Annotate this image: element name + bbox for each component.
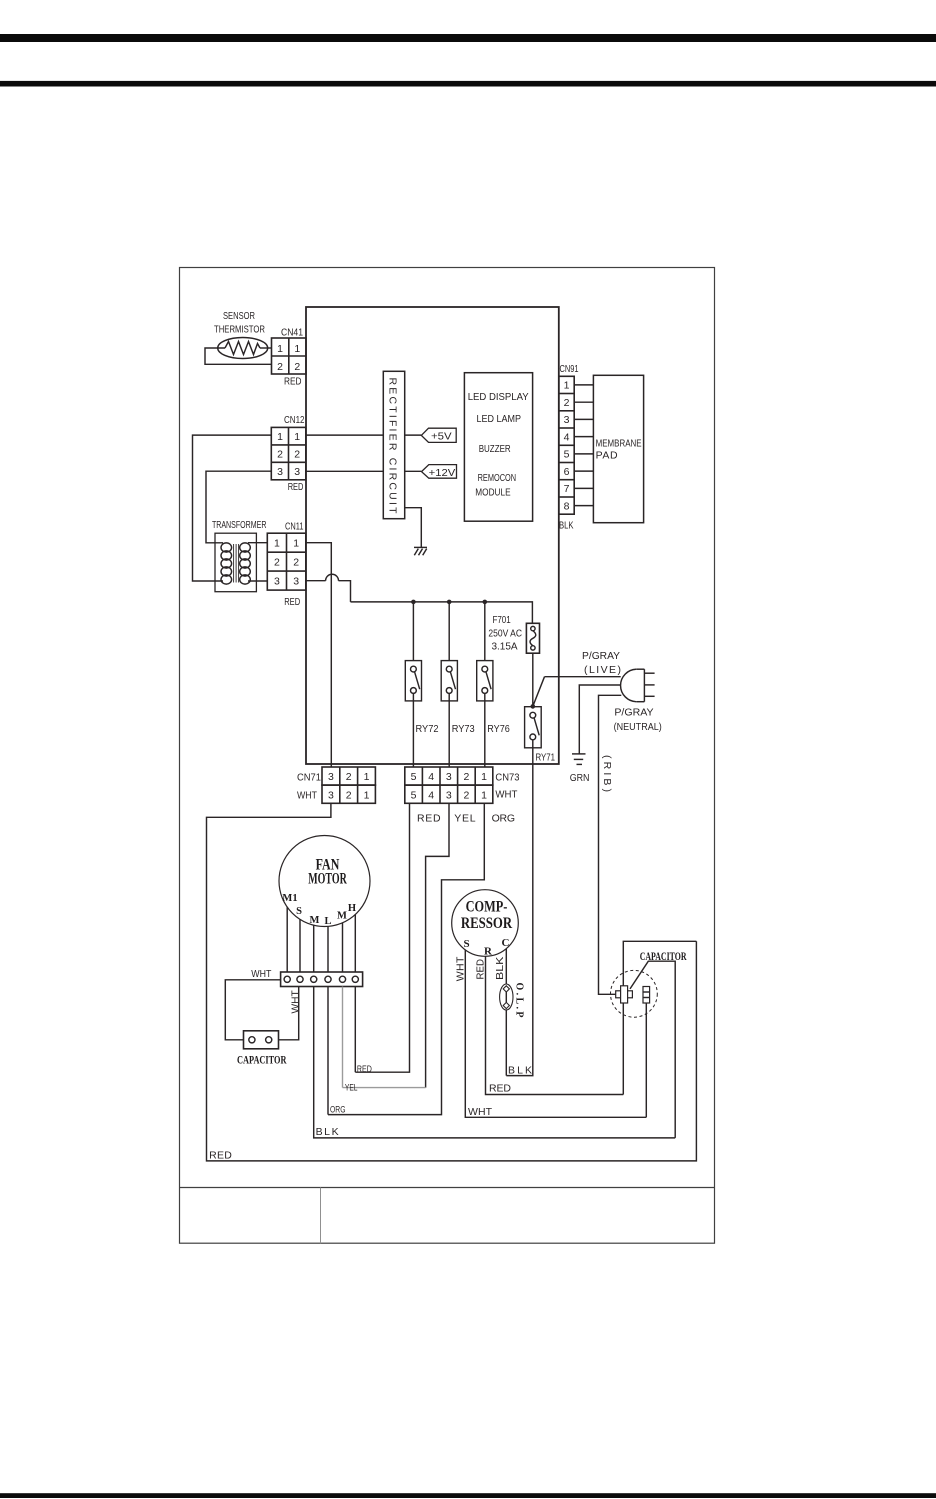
compressor motor xyxy=(452,890,519,957)
svg-text:1: 1 xyxy=(364,789,370,801)
svg-text:CN71: CN71 xyxy=(297,772,321,784)
svg-text:S: S xyxy=(463,938,469,950)
svg-text:COMP-: COMP- xyxy=(466,899,508,916)
thermistor resistive zigzag xyxy=(225,342,260,355)
wire CN73 pin3 yellow to fan terminal 5 xyxy=(426,803,449,1087)
connector CN71 xyxy=(322,767,375,803)
svg-text:(LIVE): (LIVE) xyxy=(584,664,621,676)
connector CN41 xyxy=(272,338,307,374)
relay RY76 xyxy=(477,661,493,701)
junction dot RY73 tap xyxy=(447,600,452,605)
svg-text:REMOCON: REMOCON xyxy=(478,472,516,484)
top rule bar 2 xyxy=(0,81,936,87)
svg-text:TRANSFORMER: TRANSFORMER xyxy=(212,519,267,531)
svg-text:2: 2 xyxy=(277,361,283,373)
svg-text:3: 3 xyxy=(564,414,570,426)
wire neutral lead from plug to capacitor xyxy=(599,695,622,994)
AC live bus wire xyxy=(351,602,533,623)
svg-text:WHT: WHT xyxy=(251,968,272,980)
svg-text:MOTOR: MOTOR xyxy=(308,871,347,888)
svg-text:1: 1 xyxy=(564,380,570,392)
svg-text:1: 1 xyxy=(294,431,300,443)
svg-text:RED: RED xyxy=(209,1149,232,1161)
svg-text:RY72: RY72 xyxy=(416,723,439,735)
junction dot RY72 tap xyxy=(411,600,416,605)
svg-text:2: 2 xyxy=(277,449,283,461)
svg-text:CN11: CN11 xyxy=(285,521,304,533)
wire RY73 tap to relay xyxy=(448,602,450,661)
svg-text:7: 7 xyxy=(564,483,570,495)
wires CN91 pins 1-8 to membrane pad xyxy=(574,385,593,506)
transformer T1 xyxy=(215,533,256,592)
wire RY71 node to live lead diagonal xyxy=(533,677,545,707)
svg-text:1: 1 xyxy=(277,431,283,443)
wire live lead to plug xyxy=(545,676,621,678)
svg-text:2: 2 xyxy=(293,557,299,569)
fuse F701 value label xyxy=(488,614,522,653)
junction dot RY71 top xyxy=(531,704,536,709)
+5V net flag xyxy=(421,428,456,442)
rectifier circuit block xyxy=(383,371,404,518)
svg-text:RED: RED xyxy=(357,1064,372,1074)
svg-text:BUZZER: BUZZER xyxy=(479,443,511,455)
svg-text:1: 1 xyxy=(364,771,370,783)
svg-text:4: 4 xyxy=(428,771,434,783)
wire fan terminal 5 down xyxy=(342,987,344,1088)
svg-text:3: 3 xyxy=(328,771,334,783)
svg-text:H: H xyxy=(348,903,356,914)
svg-text:C: C xyxy=(502,937,510,949)
relay RY71 xyxy=(525,707,542,748)
svg-text:3: 3 xyxy=(293,576,299,588)
wire CN73 pin5 red to fan terminal 6 xyxy=(355,803,409,1072)
relay RY72 xyxy=(405,661,421,701)
svg-text:5: 5 xyxy=(564,449,570,461)
svg-text:RESSOR: RESSOR xyxy=(461,915,513,932)
wire compressor S white to right capacitor xyxy=(465,950,646,1118)
svg-text:3: 3 xyxy=(294,466,300,478)
wire rectifier to +12V flag xyxy=(405,470,422,472)
wire ground lead from plug xyxy=(579,685,620,754)
svg-text:M: M xyxy=(310,915,320,926)
svg-text:4: 4 xyxy=(428,789,434,801)
svg-text:ORG: ORG xyxy=(330,1105,346,1115)
overload protector O.L.P xyxy=(500,984,513,1010)
svg-text:3: 3 xyxy=(446,789,452,801)
+12V net flag xyxy=(422,465,457,479)
svg-text:(NEUTRAL): (NEUTRAL) xyxy=(614,721,662,733)
connector CN91 xyxy=(559,376,574,514)
membrane pad block xyxy=(593,375,643,522)
power plug label P/GRAY (NEUTRAL) xyxy=(614,707,662,733)
svg-text:O.L.P: O.L.P xyxy=(514,983,525,1018)
fan motor lead wires to terminal strip xyxy=(287,907,355,972)
svg-text:CN12: CN12 xyxy=(284,414,305,426)
wire fuse to RY71 node xyxy=(532,653,534,706)
wire capacitor to fan terminal 2 xyxy=(279,987,299,1040)
svg-text:1: 1 xyxy=(277,343,283,355)
wire CN12 pin3 to transformer primary top xyxy=(206,471,271,543)
svg-text:THERMISTOR: THERMISTOR xyxy=(214,324,265,336)
svg-text:RED: RED xyxy=(489,1083,511,1095)
svg-text:2: 2 xyxy=(294,361,300,373)
wire fan terminal 3 black to right capacitor branch xyxy=(314,987,676,1138)
svg-text:RY71: RY71 xyxy=(536,751,556,763)
svg-text:CAPACITOR: CAPACITOR xyxy=(237,1052,287,1066)
capacitor cross terminal xyxy=(616,986,633,1003)
svg-text:GRN: GRN xyxy=(570,772,590,784)
signal ground symbol xyxy=(414,547,427,555)
svg-text:3: 3 xyxy=(446,771,452,783)
wire CN12 pin1 to rectifier xyxy=(306,434,384,436)
svg-text:8: 8 xyxy=(564,500,570,512)
wire CN12 pin1 to transformer primary bottom xyxy=(193,435,272,581)
svg-text:2: 2 xyxy=(463,789,469,801)
svg-text:1: 1 xyxy=(294,343,300,355)
power plug xyxy=(621,669,655,702)
svg-text:2: 2 xyxy=(274,557,280,569)
compressor capacitor dashed outline xyxy=(611,970,658,1017)
svg-text:BLK: BLK xyxy=(559,519,574,531)
relay RY73 xyxy=(441,661,457,701)
footer strip divider line xyxy=(180,1187,715,1189)
svg-text:1: 1 xyxy=(481,789,487,801)
svg-text:CN73: CN73 xyxy=(495,771,519,783)
wire RY73 to CN73 pin3 xyxy=(448,693,450,767)
wire fan terminal 1 to capacitor xyxy=(225,980,280,1040)
wire CN73 pin1 orange to fan terminal 4 xyxy=(328,803,484,1114)
svg-text:RED: RED xyxy=(474,959,486,980)
wire RY76 to CN73 pin1 xyxy=(484,693,486,767)
fan capacitor xyxy=(244,1031,279,1049)
wire capacitor cross to black branch xyxy=(630,961,675,1138)
LED display / buzzer / remocon module block xyxy=(464,373,532,522)
top rule bar 1 xyxy=(0,34,936,42)
svg-text:YEL: YEL xyxy=(345,1082,358,1092)
svg-text:6: 6 xyxy=(564,466,570,478)
svg-text:BLK: BLK xyxy=(316,1126,339,1138)
svg-text:P/GRAY: P/GRAY xyxy=(582,650,620,662)
svg-text:4: 4 xyxy=(564,431,570,443)
wire RY72 coil tap to relay xyxy=(412,602,414,661)
svg-text:WHT: WHT xyxy=(495,788,518,800)
wire rectifier to +5V flag xyxy=(405,434,422,436)
fan motor M1 xyxy=(279,836,370,927)
svg-text:3.15A: 3.15A xyxy=(491,641,517,653)
thermistor body ellipse xyxy=(218,338,268,359)
svg-text:SENSOR: SENSOR xyxy=(223,310,255,322)
svg-text:RED: RED xyxy=(284,376,302,388)
wire compressor C black through O.L.P xyxy=(505,949,507,1076)
svg-text:BLK: BLK xyxy=(508,1064,532,1076)
thermistor lead wires xyxy=(205,348,272,364)
svg-text:2: 2 xyxy=(294,449,300,461)
svg-text:5: 5 xyxy=(411,789,417,801)
svg-text:CN91: CN91 xyxy=(560,363,579,375)
svg-text:M: M xyxy=(337,911,347,922)
svg-text:1: 1 xyxy=(481,771,487,783)
svg-text:+12V: +12V xyxy=(429,467,456,479)
svg-text:WHT: WHT xyxy=(468,1106,493,1118)
wire transformer secondary top to CN11 pin1 xyxy=(248,542,267,544)
wire CN71 pin3 red loop to right capacitor xyxy=(207,803,697,1161)
wire rectifier output to signal ground xyxy=(405,508,422,548)
svg-text:2: 2 xyxy=(346,771,352,783)
wire CN11 pin1 down to CN71 pin3 xyxy=(306,543,332,767)
svg-text:250V AC: 250V AC xyxy=(488,628,522,640)
svg-text:LED LAMP: LED LAMP xyxy=(477,413,522,425)
svg-text:PAD: PAD xyxy=(596,450,618,462)
fuse F701 xyxy=(526,623,539,653)
svg-text:WHT: WHT xyxy=(289,990,301,1014)
svg-text:3: 3 xyxy=(277,466,283,478)
svg-text:RY76: RY76 xyxy=(487,723,510,735)
connector CN12 xyxy=(271,427,306,479)
svg-text:L: L xyxy=(324,916,331,927)
capacitor bar terminal xyxy=(643,987,650,1004)
svg-text:CN41: CN41 xyxy=(281,327,303,339)
fan terminal strip xyxy=(281,972,363,987)
svg-text:ORG: ORG xyxy=(492,813,515,825)
svg-text:(RIB): (RIB) xyxy=(601,755,613,792)
svg-text:LED DISPLAY: LED DISPLAY xyxy=(468,391,529,403)
svg-text:RED: RED xyxy=(417,813,441,825)
svg-text:S: S xyxy=(296,906,302,917)
wire fan terminal 4 down xyxy=(327,987,329,1115)
svg-text:MODULE: MODULE xyxy=(475,486,510,498)
svg-text:MEMBRANE: MEMBRANE xyxy=(596,437,642,449)
wire RY72 to CN73 pin5 xyxy=(412,693,414,767)
svg-text:RED: RED xyxy=(288,481,304,493)
wire fan terminal 6 down xyxy=(354,987,356,1073)
wire RY71 down to compressor O.L.P branch xyxy=(506,740,533,1076)
svg-text:2: 2 xyxy=(564,397,570,409)
svg-text:+5V: +5V xyxy=(431,431,452,443)
junction dot RY76 tap xyxy=(483,600,488,605)
svg-text:WHT: WHT xyxy=(454,956,466,981)
connector CN73 xyxy=(405,767,493,803)
svg-text:1: 1 xyxy=(274,538,280,550)
wire compressor R red to right capacitor xyxy=(486,956,624,1094)
svg-text:M1: M1 xyxy=(282,893,297,904)
connector CN11 xyxy=(267,533,306,590)
wire capacitor bar terminal down to white wire xyxy=(645,1003,647,1117)
bottom rule bar xyxy=(0,1493,936,1498)
svg-text:P/GRAY: P/GRAY xyxy=(614,707,653,719)
svg-text:RECTIFIER CIRCUIT: RECTIFIER CIRCUIT xyxy=(387,378,399,515)
wire transformer secondary bottom to CN11 pin3 xyxy=(248,580,267,582)
svg-text:RY73: RY73 xyxy=(452,723,475,735)
svg-text:2: 2 xyxy=(346,789,352,801)
diagram outer border frame xyxy=(180,268,715,1244)
svg-text:3: 3 xyxy=(274,576,280,588)
compressor capacitor frame top xyxy=(623,941,696,1094)
svg-text:3: 3 xyxy=(328,789,334,801)
svg-text:2: 2 xyxy=(463,771,469,783)
earth ground symbol GRN xyxy=(572,754,586,765)
svg-text:F701: F701 xyxy=(492,614,510,626)
wire CN11 pin3 with crossover hop to AC bus xyxy=(306,574,351,602)
power plug label P/GRAY (LIVE) xyxy=(582,650,621,676)
svg-text:BLK: BLK xyxy=(494,957,506,980)
sensor thermistor label xyxy=(214,310,265,336)
svg-text:R: R xyxy=(484,946,493,958)
svg-text:YEL: YEL xyxy=(454,813,475,825)
svg-text:RED: RED xyxy=(284,596,300,608)
main control PCB box xyxy=(306,307,559,764)
svg-text:1: 1 xyxy=(293,538,299,550)
wire RY76 tap to relay xyxy=(484,602,486,661)
footer strip vertical divider xyxy=(320,1188,322,1244)
svg-text:5: 5 xyxy=(411,771,417,783)
wire CN12 pin3 to rectifier xyxy=(306,470,384,472)
svg-text:WHT: WHT xyxy=(297,789,317,801)
